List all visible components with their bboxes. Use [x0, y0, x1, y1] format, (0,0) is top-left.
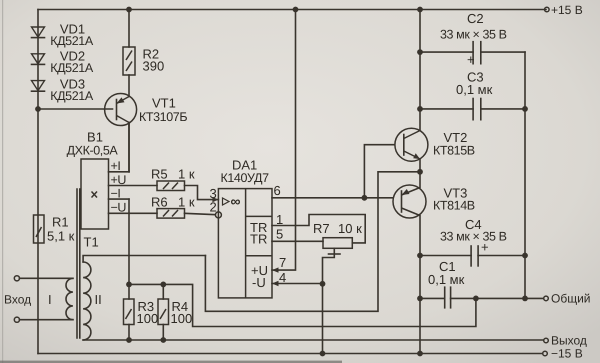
hall sensor B1 ДХК-0,5А	[67, 130, 119, 230]
svg-text:TR: TR	[250, 232, 267, 247]
winding II secondary	[83, 256, 205, 341]
wire feedback emitters to winding II	[205, 172, 420, 311]
svg-text:КТ815В: КТ815В	[433, 144, 475, 158]
wire common line	[476, 297, 543, 299]
wire Выход line	[83, 339, 543, 341]
scan artifact left edge line	[2, 0, 3, 363]
svg-text:−15 В: −15 В	[551, 347, 583, 361]
svg-text:КТ3107Б: КТ3107Б	[139, 110, 187, 124]
transistor VT1 КТ3107Б (PNP)	[105, 75, 188, 172]
resistor R5 1k	[151, 167, 195, 191]
terminal Общий	[544, 292, 591, 306]
svg-text:В1: В1	[87, 130, 103, 145]
svg-text:R1: R1	[52, 215, 69, 230]
diode VD1	[32, 22, 94, 48]
svg-text:R6: R6	[151, 195, 168, 210]
transistor VT2 КТ815В (NPN)	[395, 7, 475, 172]
wire pin6 to VT3 base	[364, 197, 392, 199]
terminal -15 V	[543, 347, 583, 361]
wire R5 to pin 3	[185, 186, 219, 200]
pin 6 output	[272, 183, 367, 201]
svg-text:1 к: 1 к	[178, 167, 195, 182]
svg-text:100: 100	[137, 311, 159, 326]
op-amp DA1 К140УД7	[218, 158, 272, 298]
svg-text:1: 1	[276, 212, 283, 227]
svg-text:Выход: Выход	[551, 334, 587, 348]
svg-text:+I: +I	[111, 159, 121, 173]
R7 wiper	[323, 248, 341, 283]
svg-text:-U: -U	[252, 275, 266, 290]
svg-text:Общий: Общий	[551, 292, 591, 306]
pin +I of B1	[109, 123, 130, 174]
svg-text:5: 5	[276, 227, 283, 242]
svg-text:К140УД7: К140УД7	[221, 171, 270, 185]
wire right column C2C3C4 to common	[522, 52, 528, 301]
terminal +15 V	[545, 3, 583, 17]
pin 3	[210, 186, 219, 202]
svg-text:1 к: 1 к	[178, 195, 195, 210]
wire left column	[37, 10, 39, 354]
winding I primary	[20, 278, 73, 319]
svg-text:−U: −U	[111, 201, 127, 215]
capacitor C4 33mk x 35V	[417, 217, 528, 266]
node emitters junction	[417, 169, 423, 175]
capacitor C1 0,1mk	[417, 259, 479, 308]
scan artifact bottom band	[0, 361, 342, 363]
svg-text:КТ814В: КТ814В	[433, 199, 475, 213]
svg-text:0,1 мк: 0,1 мк	[428, 272, 465, 287]
resistor R6 1k	[151, 195, 195, 219]
svg-text:R5: R5	[151, 167, 168, 182]
pin -U of B1	[109, 201, 158, 215]
terminal Выход	[544, 334, 587, 348]
node base VT1 junction	[35, 106, 41, 112]
svg-text:33 мк × 35 В: 33 мк × 35 В	[440, 28, 507, 42]
resistor R3 100	[124, 282, 159, 343]
svg-text:R7: R7	[313, 221, 330, 236]
svg-text:+: +	[467, 52, 475, 67]
transistor VT3 КТ814В (PNP)	[393, 172, 475, 357]
svg-text:Т1: Т1	[84, 235, 99, 250]
svg-text:6: 6	[274, 183, 281, 198]
resistor R2	[123, 7, 164, 75]
capacitor C3 0,1mk	[417, 70, 528, 120]
svg-text:КД521А: КД521А	[50, 34, 94, 48]
resistor R1	[34, 215, 75, 244]
capacitor C2 33mk x 35V	[417, 11, 525, 67]
svg-text:390: 390	[143, 59, 165, 74]
svg-text:КД521А: КД521А	[50, 89, 94, 103]
transformer T1 core	[77, 189, 99, 338]
svg-text:7: 7	[279, 255, 286, 270]
svg-text:VT1: VT1	[152, 96, 176, 111]
svg-text:II: II	[95, 292, 102, 307]
pin 7	[272, 7, 298, 273]
wire +15V top rail	[38, 9, 546, 11]
svg-text:КД521А: КД521А	[50, 61, 94, 75]
pin 2 inverting input circle	[210, 200, 222, 218]
pin -I of B1	[109, 187, 130, 285]
wire pin6 to VT2 base	[364, 145, 394, 198]
svg-text:∞: ∞	[231, 193, 241, 209]
pin 4	[272, 270, 325, 356]
svg-text:+U: +U	[111, 173, 127, 187]
wire R6 to pin 2	[185, 213, 216, 214]
svg-text:4: 4	[279, 270, 286, 285]
svg-text:33 мк × 35 В: 33 мк × 35 В	[440, 230, 507, 244]
svg-text:2: 2	[210, 200, 217, 215]
svg-text:−I: −I	[111, 187, 121, 201]
resistor R4 100	[129, 282, 192, 343]
svg-text:С2: С2	[467, 11, 484, 26]
wire VT1 base	[38, 108, 113, 110]
pin +U of B1	[109, 173, 158, 187]
svg-text:I: I	[48, 292, 52, 307]
terminal Вход upper	[4, 276, 31, 307]
svg-text:ДХК-0,5А: ДХК-0,5А	[67, 144, 119, 158]
svg-text:+15 В: +15 В	[551, 3, 583, 17]
trimmer R7 10k	[313, 221, 362, 248]
svg-text:100: 100	[171, 311, 193, 326]
terminal Вход lower	[14, 317, 19, 322]
svg-text:Вход: Вход	[4, 293, 31, 307]
diode VD3	[32, 77, 94, 103]
pin 1	[272, 212, 365, 243]
wire R3R4 tops to ground return	[163, 284, 476, 326]
svg-text:10 к: 10 к	[338, 221, 362, 236]
svg-text:0,1 мк: 0,1 мк	[456, 82, 493, 97]
svg-text:5,1 к: 5,1 к	[47, 229, 75, 244]
diode VD2	[32, 49, 94, 75]
wire -15V bottom rail	[38, 353, 543, 355]
pin 5	[272, 227, 323, 242]
